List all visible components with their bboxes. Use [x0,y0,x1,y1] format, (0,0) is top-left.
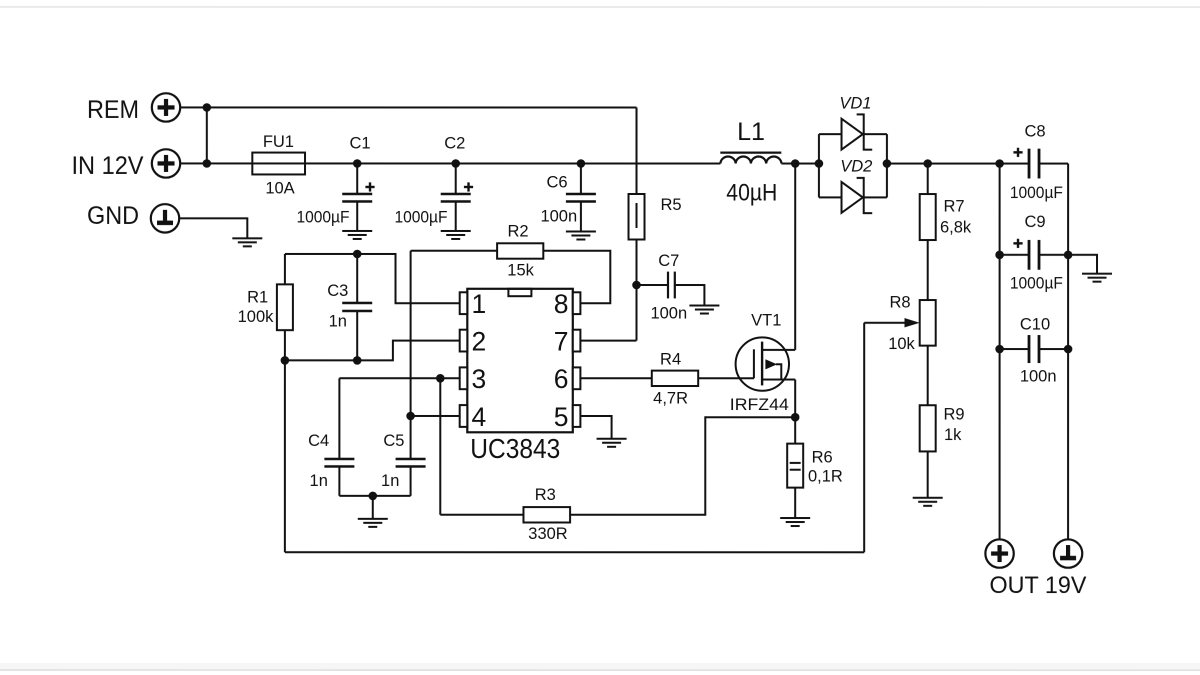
ground of output [1082,273,1112,275]
capacitor C4 [324,458,354,461]
svg-text:C7: C7 [658,252,679,270]
node output left rail top [995,159,1004,168]
wire C5 top lead [410,416,412,459]
node C10 right [1064,345,1073,354]
wire long bottom feedback run [285,551,864,553]
ground symbol for GND input [232,237,262,239]
wire pin7 to R5 net [580,340,636,342]
svg-text:C2: C2 [444,134,465,152]
ground of C1 [342,230,372,232]
wire feedback riser up to R8 wiper [863,323,865,553]
node C3 bottom junction [353,356,362,365]
capacitor C5 [396,458,426,461]
svg-text:C6: C6 [546,173,567,191]
resistor R2 [497,243,543,258]
svg-text:6,8k: 6,8k [940,219,972,237]
svg-text:1000µF: 1000µF [1010,274,1063,292]
wire R7 to R8 [927,240,929,300]
wire 12V rail from fuse to L1 [305,162,720,164]
svg-text:UC3843: UC3843 [470,433,560,464]
wire pin1 to C3/R1 node [357,254,460,303]
capacitor C10 [1028,335,1031,363]
wire R3 left lead [440,514,523,516]
svg-text:2: 2 [471,326,486,356]
node C9 right [1064,251,1073,260]
wire R2 left lead [411,250,498,252]
svg-text:IRFZ44: IRFZ44 [730,396,789,414]
wire R1 bottom lead [284,330,286,360]
svg-text:4: 4 [471,402,486,432]
wire pin4 line [411,415,460,417]
resistor R7 [920,194,936,240]
svg-text:100n: 100n [540,207,577,225]
ground of C7 [689,305,719,307]
svg-text:100k: 100k [238,308,275,326]
potentiometer R8 [920,300,936,346]
resistor R4 [652,371,698,386]
node C9 left [995,251,1004,260]
wire node A down to 12V rail [206,107,208,163]
transistor VT1 circle [736,337,789,390]
ground of C2 [441,230,471,232]
pin stub 5 [573,405,581,427]
node C2 on rail [451,159,460,168]
R8 wiper line [864,322,905,324]
wire R3 left riser [439,378,441,515]
svg-text:R4: R4 [660,350,681,368]
pin stub 6 [573,367,581,389]
VT1 drain lead [762,349,795,351]
wire C4 top lead [338,378,340,459]
svg-text:C10: C10 [1020,316,1050,334]
inductor L1 winding [720,156,781,163]
wire node to R1 top [285,253,357,255]
svg-text:C5: C5 [383,432,404,450]
wire R5 top lead from REM rail [636,108,638,195]
node B junction on 12V rail [203,159,212,168]
wire R1 top lead [284,254,286,284]
inductor L1 core line [720,152,781,154]
wire VT1 source down [794,380,796,444]
R8 wiper arrow [905,318,920,327]
svg-text:100n: 100n [1020,368,1057,386]
capacitor C1 [342,193,372,196]
svg-text:0,1R: 0,1R [808,468,843,486]
wire C7 left lead [637,284,669,286]
svg-text:R2: R2 [507,223,528,241]
wire diode block left vertical [818,134,820,197]
svg-text:1: 1 [472,289,487,319]
wire rail diodes to output block [887,163,1000,165]
wire C10 left lead [1000,348,1029,350]
faint top artifact line [0,6,1200,8]
ground of C4/C5 [358,518,388,520]
svg-text:C9: C9 [1024,213,1045,231]
wire pin5 to ground [580,416,611,439]
capacitor C3 [342,302,372,305]
terminal OUT earth [1054,539,1082,567]
svg-text:R7: R7 [944,198,965,216]
capacitor C6 [566,193,596,196]
wire R6 bottom lead [794,488,796,518]
node pin4/C5/R2 junction [406,412,415,421]
wire R2 left riser [410,251,412,416]
node pin3 junction to R3 [436,374,445,383]
wire through fuse FU1 [252,162,305,164]
wire REM terminal to node A [180,106,207,108]
VT1 gate bar [753,349,755,378]
wire R3 right lead to VT1 source node [570,417,795,515]
svg-text:1k: 1k [944,426,962,444]
wire pin6 to R4 [580,377,651,379]
svg-text:1000µF: 1000µF [1010,184,1063,202]
ground of pin5 [597,438,627,440]
faint bottom artifact band [0,669,1200,671]
polarity + of C8 [1013,151,1022,153]
svg-text:C3: C3 [327,282,348,300]
VT1 channel bar [761,342,763,386]
node C7 junction [632,281,641,290]
svg-text:40µH: 40µH [726,179,777,206]
wire GND terminal to ground [179,218,247,238]
wire C9 node to ground [1068,255,1097,274]
node R7 top on rail [923,159,932,168]
svg-text:10A: 10A [265,179,294,197]
ground of R6 [780,517,810,519]
wire C8 right lead [1039,163,1068,165]
terminal OUT + [985,539,1013,567]
VT1 body arrow [766,360,776,369]
svg-text:1n: 1n [309,472,327,490]
svg-text:VD2: VD2 [840,158,872,176]
wire R2 right lead to pin8 [543,251,610,304]
svg-text:1n: 1n [329,312,347,330]
polarity + of C1 [365,186,374,188]
diode VD2 triangle [842,182,863,213]
diode VD1 schottky bar [857,114,873,149]
polarity + of C2 [464,186,473,188]
node diode block right [883,159,892,168]
capacitor C9 [1028,240,1031,270]
diode VD2 schottky bar [857,178,873,213]
polarity + of C9 [1013,242,1022,244]
terminal GND (earth) [151,204,179,232]
wire C9 right lead [1039,254,1068,256]
svg-text:R9: R9 [943,406,964,424]
svg-text:OUT 19V: OUT 19V [989,572,1086,599]
svg-text:R1: R1 [247,289,268,307]
svg-text:GND: GND [87,202,139,230]
wire pin3 line [339,377,459,379]
svg-text:REM: REM [87,96,139,124]
IC index notch [508,289,531,296]
wire output right rail [1067,164,1069,540]
pin stub 8 [573,292,581,314]
capacitor C2 [441,193,471,196]
node pin1/C3 junction [353,250,362,259]
svg-text:R5: R5 [661,196,682,214]
resistor R6 [787,444,803,488]
node C6 on rail [577,159,586,168]
svg-text:1n: 1n [381,472,399,490]
svg-text:R6: R6 [812,448,833,466]
node VT1 drain on rail [791,159,800,168]
VT1 body link [776,364,781,379]
pin stub 1 [460,292,468,314]
capacitor C7 [667,272,669,299]
node C4/C5 ground junction [368,492,377,501]
resistor R3 [523,507,570,522]
diode VD1 triangle [842,119,863,150]
wire C1 bottom lead [356,201,358,231]
svg-text:FU1: FU1 [263,133,294,151]
wire pin2 to feedback node [285,341,460,361]
wire left feedback riser down [284,360,286,552]
wire C6 top lead [580,163,582,194]
svg-text:4,7R: 4,7R [653,390,688,408]
wire REM rail to R5 top [207,106,637,108]
pin stub 3 [460,367,468,389]
resistor R5 [629,194,645,240]
node A junction REM/IN link top [203,103,212,112]
wire C9 left lead [1000,254,1029,256]
wire R7 top lead [927,164,929,195]
wire C8 left lead [1000,163,1029,165]
wire VT1 drain riser [794,164,796,350]
wire C6 bottom lead [580,201,582,231]
fuse FU1 [252,153,305,175]
svg-text:L1: L1 [737,118,765,146]
svg-text:15k: 15k [507,261,534,279]
wire output left rail [999,164,1001,540]
wire C3 bottom lead [356,311,358,360]
wire C1 top lead [356,163,358,194]
svg-text:VD1: VD1 [839,95,871,113]
svg-text:VT1: VT1 [751,311,781,329]
svg-text:5: 5 [554,402,569,432]
svg-text:6: 6 [554,364,569,394]
svg-text:100n: 100n [650,305,687,323]
power marks inside R6 [790,462,801,464]
wire C5 bottom lead [410,466,412,495]
capacitor C3 top lead [356,254,358,303]
svg-text:1000µF: 1000µF [297,208,350,226]
terminal IN 12V (+) [152,149,180,177]
svg-text:3: 3 [471,364,486,394]
wire C2 top lead [455,163,457,194]
ground of R9 [913,497,943,499]
wire VD2 cathode lead [864,196,887,198]
VT1 source lead [762,379,795,381]
svg-text:10k: 10k [888,335,915,353]
svg-text:C1: C1 [349,134,370,152]
svg-text:IN 12V: IN 12V [72,152,144,180]
wire C4 bottom lead [338,466,340,495]
node C1 on rail [353,159,362,168]
svg-text:330R: 330R [528,525,568,543]
wire C10 right lead [1039,348,1068,350]
wire R8 to R9 [927,346,929,406]
svg-text:R8: R8 [889,294,910,312]
svg-text:C4: C4 [308,432,329,450]
wire L1 to VD node [781,163,819,165]
wire C4-C5 bottom link [339,495,410,497]
wire C2 bottom lead [455,201,457,231]
node C10 left [995,345,1004,354]
wire down to ground from C4/C5 [372,496,374,519]
svg-text:R3: R3 [535,486,556,504]
svg-text:C8: C8 [1024,123,1045,141]
pin stub 2 [460,330,468,352]
capacitor C8 [1028,149,1031,179]
wire VD1 anode lead [819,133,842,135]
node R1 bottom junction [281,356,290,365]
pin stub 4 [460,405,468,427]
wire R9 bottom lead [927,451,929,497]
pin stub 7 [573,330,581,352]
terminal REM (+) [152,93,180,121]
wire C7 right lead to ground [675,285,705,306]
svg-text:8: 8 [554,289,569,319]
wire IN terminal to fuse [180,162,252,164]
wire VD2 anode lead [819,196,842,198]
wire VD1 cathode lead [864,133,887,135]
svg-text:1000µF: 1000µF [395,208,448,226]
svg-text:7: 7 [554,326,569,356]
wire diode block right vertical [886,134,888,197]
ground of C6 [566,230,596,232]
wire R5 bottom to pin7 corner [635,240,637,341]
node diode block left [815,159,824,168]
power mark inside R5 [636,203,638,228]
IC U1 body UC3843 [467,289,573,433]
node VT1 source junction [791,413,800,422]
resistor R9 [920,405,936,451]
resistor R1 [277,284,293,330]
wire R4 to VT1 gate [698,377,754,379]
